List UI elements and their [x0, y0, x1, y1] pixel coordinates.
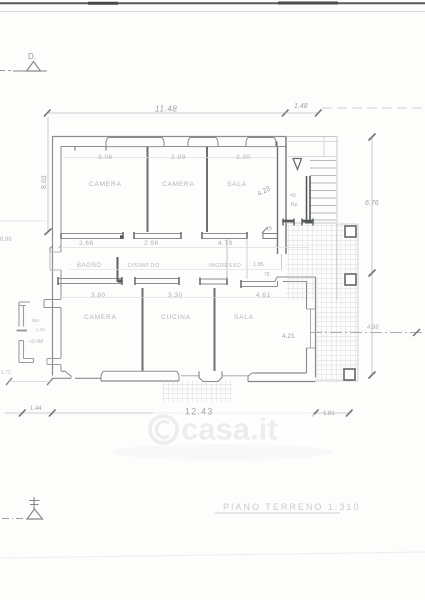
interior wall mid2 segment bagno — [58, 277, 123, 285]
bagno east wall — [117, 257, 119, 282]
dimension line 1.48 — [285, 112, 318, 114]
scan artifact top dark line — [0, 2, 425, 4]
column pillar 2 — [345, 274, 356, 285]
svg-text:4.98: 4.98 — [367, 325, 379, 331]
svg-text:12.43: 12.43 — [185, 407, 214, 417]
svg-text:4.79: 4.79 — [218, 240, 233, 247]
west window sill 1 — [50, 252, 61, 270]
svg-text:casa.it: casa.it — [181, 412, 278, 447]
west window 2 (protruding) — [44, 300, 61, 308]
tick 8.03 bottom — [45, 229, 52, 236]
svg-text:3.30: 3.30 — [236, 154, 251, 161]
outer wall top inner line — [61, 146, 286, 148]
divider camera/sala top — [206, 147, 208, 233]
svg-text:CUCINA: CUCINA — [161, 314, 191, 321]
svg-text:DISIMP.DO: DISIMP.DO — [128, 263, 160, 269]
svg-text:15: 15 — [266, 225, 274, 233]
terrace hatch upper — [287, 224, 359, 300]
interior wall mid1 segment disimpegno — [134, 232, 181, 239]
dimension line 11.48 — [47, 112, 285, 114]
stairwell west wall (sala top right wall) — [277, 147, 279, 234]
svg-text:11.48: 11.48 — [155, 105, 177, 114]
terrace hatch right — [316, 300, 359, 381]
divider cucina/sala bottom — [214, 288, 216, 371]
sala bottom corner jog — [248, 373, 255, 382]
bottom dimension chain — [5, 412, 352, 414]
stair door sill — [281, 254, 283, 270]
stair block outline — [286, 137, 337, 224]
svg-text:3.06: 3.06 — [98, 154, 113, 161]
interior wall mid1 segment bagno — [61, 232, 124, 239]
svg-text:CAMERA: CAMERA — [162, 181, 195, 188]
benchmark bottom dash-dot — [2, 518, 25, 520]
stair treads — [310, 161, 336, 221]
svg-text:4.21: 4.21 — [282, 333, 295, 340]
tick on axis — [413, 329, 420, 336]
column pillar 3 — [344, 369, 355, 380]
svg-text:1.10: 1.10 — [36, 327, 45, 332]
svg-text:8.03: 8.03 — [41, 175, 48, 189]
svg-text:CAMERA: CAMERA — [89, 181, 122, 188]
svg-text:BAGNO: BAGNO — [77, 263, 102, 269]
svg-text:2.66: 2.66 — [79, 240, 94, 247]
lavatory annex lower bracket — [19, 341, 34, 363]
left inner wall — [60, 146, 62, 371]
benchmark bottom triangle — [27, 509, 43, 519]
ingresso east guide — [246, 239, 248, 280]
svg-text:6.96: 6.96 — [0, 237, 12, 243]
disimpegno east wall light — [226, 239, 228, 280]
svg-text:+0.4M: +0.4M — [29, 339, 43, 345]
svg-text:1.81: 1.81 — [323, 411, 335, 417]
svg-text:4.61: 4.61 — [256, 292, 271, 299]
stair wall lower stub — [278, 233, 287, 254]
tick at x47 — [44, 110, 51, 117]
scan artifact light line — [0, 11, 425, 13]
construction line under top numbers — [61, 157, 277, 159]
tick 1.44 right — [49, 410, 56, 417]
stair bottom stub west — [283, 220, 294, 223]
outer wall top outer line — [53, 136, 287, 138]
svg-text:75: 75 — [264, 272, 270, 278]
west window 3 small — [47, 359, 61, 365]
benchmark dashes — [0, 70, 11, 72]
dashed extension line top right — [322, 107, 425, 109]
east window W7 — [307, 309, 316, 348]
svg-text:1.44: 1.44 — [30, 406, 42, 412]
watermark glow — [145, 409, 320, 448]
lavatory annex mid dash — [17, 330, 28, 332]
terrace boundary — [316, 224, 359, 381]
stair stringer dark bar — [306, 176, 308, 222]
sala lower top wall B — [277, 277, 316, 282]
title underline — [215, 512, 340, 514]
benchmark triangle top-left — [27, 62, 41, 72]
svg-text:1.72: 1.72 — [1, 370, 11, 376]
interior wall mid1 segment ingresso — [202, 232, 247, 239]
bottom wall outer — [53, 377, 102, 379]
sala lower top wall A — [241, 280, 275, 288]
stair bottom stub east — [302, 220, 313, 223]
svg-text:1.85: 1.85 — [253, 262, 264, 268]
divider camera/cucina bottom — [142, 288, 144, 371]
svg-text:lav.: lav. — [32, 318, 41, 324]
tick 1.81 right — [346, 410, 353, 417]
left wall jog — [50, 246, 61, 252]
window W4 bottom — [101, 371, 179, 381]
svg-text:CAMERA: CAMERA — [84, 314, 117, 321]
paper crease bottom — [0, 552, 425, 558]
tick 12.43 right — [312, 410, 319, 417]
sala east wall — [315, 277, 317, 378]
stair faint mid vertical — [323, 137, 325, 157]
bottom wall inner — [61, 371, 248, 376]
stair light line upper — [286, 141, 337, 143]
top wall corner hook left — [75, 147, 147, 153]
interior wall mid2 segment disimpegno — [135, 277, 179, 285]
svg-text:2.98: 2.98 — [144, 240, 159, 247]
door threshold bottom — [199, 371, 222, 381]
svg-text:SALA: SALA — [234, 314, 254, 321]
construction line mid — [58, 247, 310, 249]
tick at x318 — [315, 110, 322, 117]
stair light line arrow level — [286, 156, 337, 158]
sala top wall jog — [275, 277, 278, 287]
construction line lower numbers — [61, 297, 306, 299]
right dimension 6.76 — [371, 137, 373, 375]
benchmark bottom T symbol — [29, 497, 40, 509]
window W3 top — [246, 137, 277, 146]
svg-text:3.30: 3.30 — [168, 292, 183, 299]
svg-text:6.76: 6.76 — [365, 200, 379, 207]
porch hatch bottom — [162, 380, 232, 402]
svg-text:INGRESSO: INGRESSO — [209, 263, 242, 269]
construction line mid labels — [70, 269, 280, 271]
divider camera/camera top — [147, 147, 149, 233]
svg-text:=0: =0 — [290, 193, 296, 199]
sala bottom wall — [248, 373, 316, 382]
svg-text:1.48: 1.48 — [294, 103, 308, 110]
svg-text:3.80: 3.80 — [91, 292, 106, 299]
watermark logo circle — [150, 416, 177, 443]
svg-text:4.23: 4.23 — [256, 185, 271, 198]
scan artifact top blotch left — [88, 2, 118, 5]
tick at x285 — [282, 110, 289, 117]
svg-text:PIANO TERRENO 1:310: PIANO TERRENO 1:310 — [223, 502, 360, 512]
dash-dot axis line right — [310, 332, 425, 334]
left dimension line 8.03 — [47, 117, 49, 232]
lav dim ticks — [6, 378, 12, 385]
tick 1.44 left — [19, 410, 26, 417]
window W2 top — [188, 137, 218, 146]
left outer wall — [52, 136, 54, 376]
benchmark base line — [13, 70, 47, 72]
scan artifact top blotch right — [278, 2, 338, 5]
column pillar 1 — [345, 226, 356, 237]
stair down arrow — [293, 159, 302, 170]
bottom left corner hook — [61, 371, 71, 378]
svg-text:Rp: Rp — [291, 202, 298, 208]
faint line left margin — [0, 220, 46, 222]
svg-text:D.: D. — [28, 52, 36, 61]
lavatory annex upper bracket — [19, 302, 30, 327]
interior wall mid1 corner piece — [263, 232, 278, 239]
svg-text:2.99: 2.99 — [171, 154, 186, 161]
interior wall mid2 segment ingresso — [200, 278, 227, 286]
svg-text:SALA: SALA — [227, 181, 247, 188]
window W1 top — [106, 137, 164, 146]
